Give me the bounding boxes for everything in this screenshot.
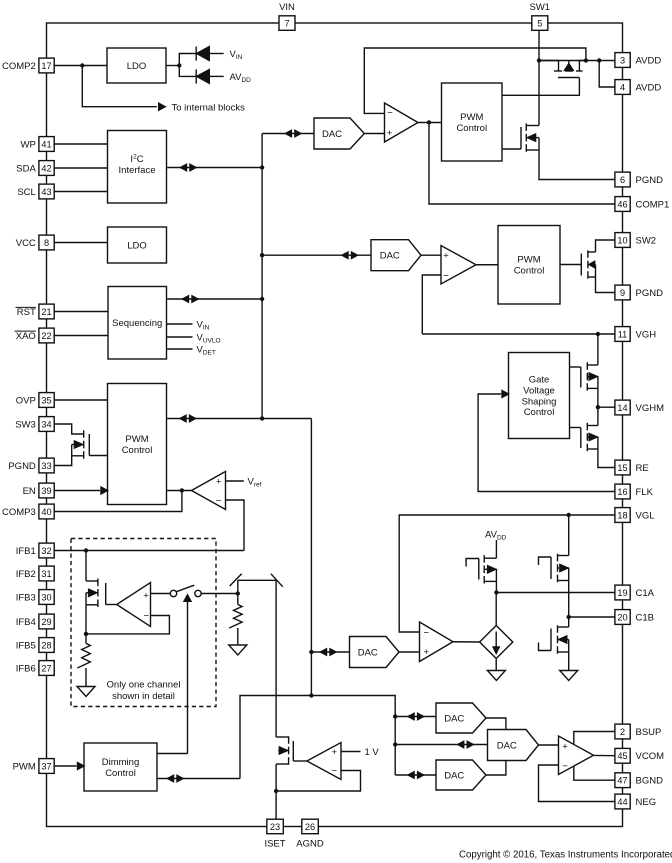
svg-text:EN: EN	[23, 486, 36, 497]
svg-text:−: −	[216, 496, 222, 507]
svg-text:AVDD: AVDD	[230, 72, 252, 84]
pin 14 VGHM	[615, 400, 630, 415]
pin 45 VCOM	[615, 748, 630, 763]
pin 6 PGND	[615, 172, 630, 187]
op-amp/comparator U9	[117, 583, 151, 627]
svg-text:FLK: FLK	[636, 487, 654, 498]
pin 8 VCC	[39, 235, 54, 250]
block Gate Voltage Shaping Control	[509, 353, 570, 439]
svg-text:DAC: DAC	[444, 713, 464, 724]
transistor Q1 isolation PMOS with body diode	[554, 70, 562, 72]
pin 17 COMP2	[39, 58, 54, 73]
svg-text:Dimming: Dimming	[102, 757, 139, 768]
svg-text:SW1: SW1	[530, 2, 551, 13]
wire RST pin21 to Sequencing	[55, 311, 109, 313]
wire riser bus B down	[310, 419, 312, 696]
ground	[77, 687, 95, 697]
wire SCL pin43 to I2C	[55, 191, 108, 193]
svg-text:+: +	[387, 128, 393, 139]
wire SDA pin42 to I2C	[55, 167, 108, 169]
wire IFB1 pin32	[55, 550, 245, 552]
wire U12 output to VCOM pin45	[594, 754, 615, 756]
pin 42 SDA	[39, 161, 54, 176]
svg-text:39: 39	[41, 486, 51, 496]
svg-text:43: 43	[41, 187, 51, 197]
svg-text:VCOM: VCOM	[636, 751, 665, 762]
pin 33 PGND	[39, 458, 54, 473]
wire BSUP pin2 to U12 supply	[574, 732, 615, 745]
svg-text:23: 23	[270, 822, 280, 832]
svg-text:C1B: C1B	[636, 612, 654, 623]
svg-text:+: +	[143, 590, 149, 601]
wire I2C bus with bidirectional arrows	[167, 167, 263, 169]
wire LDO output to diode node	[166, 65, 179, 67]
svg-text:SW2: SW2	[636, 235, 657, 246]
wire Q3 source to PGND pin9	[596, 277, 615, 293]
svg-text:C1A: C1A	[636, 588, 655, 599]
node DAC6 tap	[393, 742, 397, 746]
node DAC5 tap	[393, 714, 397, 718]
wire to DAC5	[395, 716, 436, 718]
node C1A	[494, 590, 498, 594]
overline RST	[16, 306, 36, 308]
svg-text:4: 4	[620, 82, 625, 92]
wire to DAC7	[395, 774, 436, 776]
wire U11 minus feedback	[276, 771, 360, 792]
svg-text:7: 7	[284, 18, 289, 28]
node bus DAC2	[260, 253, 264, 257]
svg-text:RST: RST	[17, 307, 36, 318]
wire U9 minus feedback	[86, 616, 169, 634]
svg-text:IFB4: IFB4	[16, 617, 36, 628]
wire U9 output to Q5 gate	[106, 604, 117, 606]
pin 37 PWM	[39, 759, 54, 774]
wire bus to DAC2	[262, 254, 371, 256]
svg-text:20: 20	[617, 612, 627, 622]
wire bus to DAC3	[311, 651, 349, 653]
transistor Q10 (C1B-GND)	[568, 617, 570, 627]
svg-text:19: 19	[617, 588, 627, 598]
wire Sequencing to bus	[167, 298, 263, 300]
svg-text:VIN: VIN	[279, 2, 295, 13]
svg-text:+: +	[424, 647, 430, 658]
wire PWM3 to bus and right riser	[167, 418, 312, 420]
svg-text:21: 21	[41, 307, 51, 317]
transistor Q5 (channel detail FET)	[85, 551, 87, 582]
svg-text:Control: Control	[456, 123, 487, 134]
svg-text:PWM: PWM	[125, 434, 148, 445]
wire to diode D2	[179, 66, 196, 77]
svg-text:Gate: Gate	[529, 375, 550, 386]
Sequencing output VIN	[167, 323, 193, 325]
svg-text:Voltage: Voltage	[523, 386, 555, 397]
svg-text:Control: Control	[122, 445, 153, 456]
svg-text:22: 22	[41, 331, 51, 341]
switch control arrow from Dimming Control	[187, 602, 189, 754]
svg-text:33: 33	[41, 461, 51, 471]
wire DAC3 to U10 plus	[399, 651, 420, 653]
svg-text:15: 15	[617, 463, 627, 473]
transistor Q4 SW3 NMOS	[83, 430, 85, 438]
wire Q7 source to RE pin15	[598, 449, 615, 468]
node VGL branch	[567, 513, 571, 517]
switch S1	[170, 590, 176, 596]
pin 32 IFB1	[39, 543, 54, 558]
wire SW1 row to isolation FET	[539, 60, 559, 62]
wire U8 output to PWM Control U7	[167, 490, 192, 492]
svg-text:SCL: SCL	[17, 187, 35, 198]
DAC DAC1 (AVDD)	[314, 118, 364, 149]
pin 19 C1A	[615, 585, 630, 600]
pin 11 VGH	[615, 327, 630, 342]
svg-text:−: −	[424, 628, 430, 639]
resistor R2	[237, 594, 239, 605]
wire C1A pin19	[496, 592, 614, 594]
wire Q5 source down to resistor	[85, 605, 87, 644]
node C1B	[567, 615, 571, 619]
op-amp/comparator U12	[559, 736, 594, 775]
svg-text:DAC: DAC	[380, 251, 400, 262]
DAC DAC5 (VCOM bank upper)	[436, 703, 486, 733]
svg-text:VIN: VIN	[197, 320, 210, 332]
transistor Q3 VGH boost NMOS	[587, 250, 589, 257]
pin 2 BSUP	[615, 724, 630, 739]
svg-text:47: 47	[617, 776, 627, 786]
wire FLK pin16 into control box	[478, 394, 614, 492]
node COMP3 join	[180, 488, 184, 492]
wire to DAC6	[395, 744, 487, 746]
wire switch to sample node	[201, 593, 238, 595]
wire Q8 to C1A node	[495, 581, 497, 592]
transistor Q8 (AVDD-C1A)	[483, 555, 485, 563]
wire EN pin39 into PWM Control U7	[55, 490, 101, 492]
pin 9 PGND	[615, 285, 630, 300]
svg-text:VGHM: VGHM	[636, 403, 665, 414]
pin 26 AGND	[302, 819, 319, 834]
svg-text:Control: Control	[524, 407, 555, 418]
svg-text:IFB5: IFB5	[16, 640, 36, 651]
pin 28 IFB5	[39, 638, 54, 653]
svg-text:1 V: 1 V	[365, 747, 380, 758]
wire Q11 gate to U11 output	[293, 760, 307, 762]
block Sequencing	[108, 287, 167, 360]
pin 4 AVDD	[615, 80, 630, 95]
svg-text:DAC: DAC	[444, 770, 464, 781]
node AVDD pin4 branch	[597, 58, 601, 62]
block I2C Interface	[108, 131, 167, 204]
svg-text:VCC: VCC	[16, 238, 36, 249]
svg-text:COMP3: COMP3	[2, 507, 36, 518]
wire DAC2 to comparator U5	[421, 254, 441, 256]
pin 41 WP	[39, 137, 54, 152]
wire Q10 source to ground	[568, 652, 570, 671]
wire Q1 gate plate and lead	[558, 77, 579, 79]
node ISET feedback	[274, 789, 278, 793]
transistor Q9 (VGL-C1B)	[568, 515, 570, 556]
wire VGL pin18 feedback to U10	[399, 515, 614, 632]
svg-text:SDA: SDA	[16, 163, 36, 174]
svg-text:DAC: DAC	[497, 740, 517, 751]
node bus Sequencing	[260, 297, 264, 301]
svg-text:LDO: LDO	[127, 240, 147, 251]
pin 21 RST	[39, 304, 54, 319]
svg-text:COMP2: COMP2	[2, 61, 36, 72]
svg-text:45: 45	[617, 751, 627, 761]
wire U5 output to PWM Control U6	[476, 264, 498, 266]
svg-text:−: −	[443, 271, 449, 282]
svg-text:I2C: I2C	[130, 154, 143, 165]
wire U8 minus feedback to IFB1	[226, 500, 245, 551]
svg-text:AVDD: AVDD	[636, 82, 662, 93]
wire NEG pin44 feedback to U12 minus	[539, 765, 615, 802]
wire to diode D1	[179, 54, 196, 66]
svg-text:NEG: NEG	[636, 797, 657, 808]
svg-text:RE: RE	[636, 463, 649, 474]
chip outline border	[47, 23, 623, 827]
DAC DAC6 (VCOM bank mid)	[488, 730, 539, 761]
node I2C bus	[260, 165, 264, 169]
svg-text:Only one channel: Only one channel	[107, 680, 181, 691]
wire COMP2 pin17 to LDO	[55, 65, 108, 67]
svg-text:VIN: VIN	[230, 49, 243, 61]
svg-text:18: 18	[617, 510, 627, 520]
svg-text:Interface: Interface	[119, 165, 156, 176]
svg-text:14: 14	[617, 403, 627, 413]
svg-text:+: +	[332, 747, 338, 758]
pin 15 RE	[615, 460, 630, 475]
svg-text:9: 9	[620, 288, 625, 298]
wire Dimming Control to bus	[157, 778, 240, 780]
svg-text:To internal blocks: To internal blocks	[172, 102, 246, 113]
wire SW3 pin34 to Q4 drain	[55, 424, 84, 434]
wire Q3 drain to SW2 pin10	[596, 240, 615, 252]
wire U5 minus feedback from VGH	[422, 275, 441, 334]
wire to internal blocks arrow	[82, 66, 157, 107]
wire WP pin41 to I2C	[55, 143, 108, 145]
svg-text:AGND: AGND	[296, 839, 324, 850]
ground	[229, 645, 247, 655]
dashed box Only one channel shown in detail	[71, 539, 216, 707]
svg-text:IFB2: IFB2	[16, 569, 36, 580]
wire DAC7 output	[486, 761, 506, 776]
svg-text:VGH: VGH	[636, 329, 657, 340]
svg-text:DAC: DAC	[358, 647, 378, 658]
block PWM Control U7 (SW3)	[108, 384, 167, 505]
wire U2 output to PWM Control	[418, 122, 442, 124]
ground	[487, 671, 505, 681]
wire BGND pin47 to U12	[574, 766, 615, 780]
wire bus to DAC bank	[311, 696, 395, 776]
wire U11 plus to 1V	[341, 751, 361, 753]
pin 27 IFB6	[39, 661, 54, 676]
svg-text:PWM: PWM	[460, 112, 483, 123]
svg-text:IFB1: IFB1	[16, 546, 36, 557]
node SW1	[537, 58, 541, 62]
transistor Q11 (ISET reference)	[276, 736, 289, 738]
pin 7 VIN	[279, 16, 295, 30]
svg-text:5: 5	[537, 18, 542, 28]
pin 3 AVDD	[615, 53, 630, 68]
pin 22 XAO	[39, 328, 54, 343]
wire I1 to ground	[495, 659, 497, 671]
svg-text:16: 16	[617, 487, 627, 497]
wire internal bus vertical	[261, 134, 263, 419]
wire SW1 pin5 down to switch node	[538, 30, 540, 126]
svg-text:DAC: DAC	[322, 129, 342, 140]
transistor Q6 (VGH-VGHM)	[597, 334, 599, 365]
svg-text:+: +	[216, 477, 222, 488]
pin 16 FLK	[615, 484, 630, 499]
svg-text:OVP: OVP	[16, 395, 36, 406]
svg-text:46: 46	[617, 199, 627, 209]
chopper bar	[238, 579, 276, 581]
svg-text:40: 40	[41, 507, 51, 517]
svg-text:−: −	[144, 610, 150, 621]
node bus PWM3	[260, 416, 264, 420]
wire DAC5 output	[486, 718, 506, 730]
svg-text:IFB6: IFB6	[16, 663, 36, 674]
svg-text:+: +	[562, 741, 568, 752]
svg-text:30: 30	[41, 592, 51, 602]
svg-text:34: 34	[41, 419, 51, 429]
node AVDD sense	[584, 58, 588, 62]
svg-text:PGND: PGND	[8, 461, 36, 472]
wire PWM pin37 into Dimming Control	[55, 765, 77, 767]
svg-text:+: +	[443, 251, 449, 262]
pin 20 C1B	[615, 610, 630, 625]
node VGH branch	[596, 332, 600, 336]
svg-text:PGND: PGND	[636, 288, 664, 299]
wire C1B pin20	[569, 616, 615, 618]
svg-text:WP: WP	[20, 139, 35, 150]
pin 47 BGND	[615, 773, 630, 788]
svg-text:LDO: LDO	[127, 61, 147, 72]
svg-text:VGL: VGL	[636, 510, 655, 521]
current source I1 diamond	[480, 626, 513, 659]
svg-text:3: 3	[620, 55, 625, 65]
transistor Q7 (VGHM-RE)	[597, 407, 599, 425]
DAC DAC3 (VGL)	[350, 637, 400, 668]
svg-text:IFB3: IFB3	[16, 592, 36, 603]
pin 5 SW1	[532, 16, 548, 30]
svg-text:Control: Control	[105, 768, 136, 779]
svg-text:44: 44	[617, 797, 627, 807]
wire Dimming Control switch drive	[157, 753, 188, 755]
block LDO U4	[108, 227, 167, 263]
svg-text:Vref: Vref	[248, 477, 262, 489]
svg-text:shown in detail: shown in detail	[112, 691, 175, 702]
block LDO U1	[107, 48, 166, 83]
svg-text:VUVLO: VUVLO	[197, 333, 221, 345]
pin 10 SW2	[615, 233, 630, 248]
pin 40 COMP3	[39, 504, 54, 519]
block Dimming Control	[84, 743, 157, 791]
op-amp/comparator U11	[307, 743, 341, 780]
svg-text:32: 32	[41, 546, 51, 556]
resistor R1	[77, 643, 90, 668]
svg-text:−: −	[332, 766, 338, 777]
wire bus to DAC1	[262, 133, 314, 135]
diode D2 to AVDD	[195, 69, 197, 83]
wire U10 output to current source	[453, 641, 480, 643]
overline XAO	[15, 330, 36, 332]
wire OVP pin35 to PWM Control U7	[55, 399, 108, 401]
wire XAO pin22 to Sequencing	[55, 335, 109, 337]
node comparator output	[427, 120, 431, 124]
pin 18 VGL	[615, 508, 630, 523]
pin 46 COMP1	[615, 197, 630, 212]
svg-text:35: 35	[41, 395, 51, 405]
op-amp/comparator U5 (VGH error comparator)	[441, 246, 476, 285]
svg-text:COMP1: COMP1	[636, 199, 670, 210]
svg-text:27: 27	[41, 663, 51, 673]
wire to COMP1 pin46	[429, 123, 615, 205]
pin 34 SW3	[39, 417, 54, 432]
svg-text:BSUP: BSUP	[636, 727, 662, 738]
wire chopper to current mirror	[275, 580, 277, 737]
svg-text:17: 17	[41, 61, 51, 71]
diode D1 to VIN	[195, 47, 197, 61]
wire VCC pin8 to LDO2	[55, 242, 108, 244]
svg-text:SW3: SW3	[15, 419, 36, 430]
wire Q6 source to VGHM pin14	[597, 388, 599, 407]
pin 35 OVP	[39, 393, 54, 408]
svg-text:PWM: PWM	[517, 255, 540, 266]
wire PGND pin33 to Q4 source	[55, 456, 72, 466]
svg-text:PWM: PWM	[13, 761, 36, 772]
wire COMP3 pin40	[55, 491, 182, 512]
wire U8 plus to Vref	[226, 480, 244, 482]
wire U9 plus to switch	[151, 593, 171, 595]
DAC DAC7 (VCOM bank lower)	[436, 760, 486, 790]
wire AVDD output node	[579, 60, 614, 62]
op-amp/comparator U2 (AVDD error comparator)	[385, 103, 419, 142]
node feedback	[84, 632, 88, 636]
svg-text:−: −	[562, 761, 568, 772]
wire DAC1 to comparator U2 plus input	[364, 133, 384, 135]
svg-text:26: 26	[305, 822, 315, 832]
wire to AVDD pin4	[599, 61, 614, 88]
DAC DAC2 (VGH)	[371, 240, 421, 271]
node IFB1	[84, 548, 88, 552]
Sequencing output VDET	[167, 348, 193, 350]
svg-text:AVDD: AVDD	[636, 55, 662, 66]
op-amp/comparator U10	[420, 622, 454, 662]
wire Q9 source to C1B node	[568, 581, 570, 618]
ground	[560, 671, 578, 681]
svg-text:Copyright © 2016, Texas Instru: Copyright © 2016, Texas Instruments Inco…	[459, 850, 672, 861]
svg-text:42: 42	[41, 163, 51, 173]
op-amp/comparator U8 (Vref comparator)	[192, 472, 226, 510]
pin 30 IFB3	[39, 590, 54, 605]
svg-text:VDET: VDET	[197, 345, 216, 357]
block PWM Control U3 (AVDD)	[442, 83, 503, 161]
svg-text:2: 2	[620, 727, 625, 737]
svg-text:AVDD: AVDD	[485, 530, 507, 542]
svg-text:Control: Control	[514, 266, 545, 277]
node sample	[236, 591, 240, 595]
Sequencing output VUVLO	[167, 336, 193, 338]
pin 44 NEG	[615, 794, 630, 809]
node VGHM	[596, 405, 600, 409]
pin 39 EN	[39, 483, 54, 498]
wire AVDD to Q8	[495, 540, 497, 558]
svg-text:BGND: BGND	[636, 776, 664, 787]
svg-text:11: 11	[618, 329, 628, 339]
block PWM Control U6 (VGH)	[498, 226, 560, 305]
svg-text:Shaping: Shaping	[522, 396, 557, 407]
node on COMP2 wire	[80, 63, 84, 67]
